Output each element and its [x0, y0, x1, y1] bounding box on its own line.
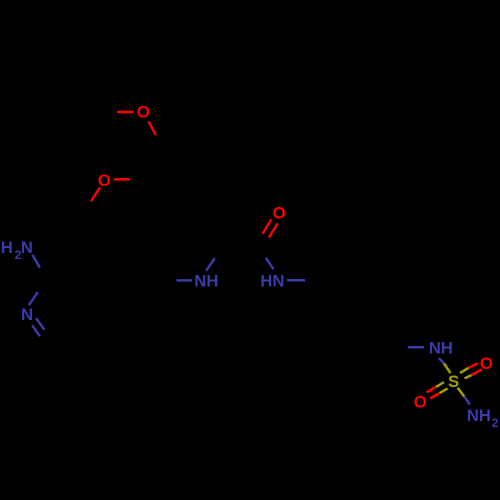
- bond O1-ring (red half): [149, 122, 157, 136]
- double bond C=O3 line 2 (red half): [269, 223, 278, 237]
- svg-text:O: O: [98, 171, 111, 190]
- bond NH-CH (blue half): [206, 258, 215, 271]
- svg-text:2: 2: [492, 416, 499, 430]
- svg-text:NH: NH: [429, 339, 453, 358]
- double bond S=O5 line 2 olive half: [440, 389, 448, 394]
- svg-text:O: O: [414, 392, 427, 411]
- bond CH2-NH (blue half): [408, 346, 424, 349]
- bond S-NH2 blue half: [464, 397, 470, 405]
- bond C(=O)-NH amide (blue half): [266, 258, 274, 269]
- double bond S=O5 line 1 olive half: [436, 382, 444, 387]
- bond NH-S blue half: [439, 358, 444, 364]
- svg-text:N: N: [21, 305, 33, 324]
- bond HN-CH2 (blue half): [287, 279, 305, 282]
- bond CH3-O1 (red half): [117, 111, 134, 114]
- svg-text:NH: NH: [194, 271, 218, 290]
- svg-text:NH: NH: [467, 406, 491, 425]
- bond Npy-C2 (blue half): [29, 292, 38, 305]
- double bond S=O4 line 1 olive half: [460, 368, 469, 373]
- double bond C=O3 line 1 (red half): [263, 219, 272, 233]
- svg-text:H: H: [1, 238, 13, 257]
- bond O2-CH2 (red half): [91, 188, 100, 202]
- bond NH-S olive half: [444, 364, 451, 374]
- svg-text:O: O: [273, 204, 286, 223]
- double bond S=O5 line 2 red half: [430, 393, 440, 398]
- double bond S=O4 line 2 red half: [472, 369, 483, 375]
- bond ring-NH (blue half): [177, 279, 193, 282]
- bond S-NH2 olive half: [458, 388, 465, 397]
- bond H2N-ring (blue half): [32, 255, 39, 268]
- svg-text:HN: HN: [260, 271, 284, 290]
- double bond S=O5 line 1 red half: [427, 387, 437, 393]
- double bond Npy=C3 line 2 (blue half): [32, 325, 40, 336]
- bond O2-ring (red half): [114, 178, 130, 181]
- svg-text:O: O: [137, 103, 150, 122]
- double bond S=O4 line 2 olive half: [465, 375, 472, 378]
- group NH2 (sulfonamide NH2): [467, 406, 499, 430]
- double bond S=O4 line 1 red half: [469, 363, 479, 368]
- double bond Npy=C3 line 1 (blue half): [36, 318, 44, 330]
- svg-text:N: N: [21, 238, 33, 257]
- group H2N (amine): [1, 238, 33, 262]
